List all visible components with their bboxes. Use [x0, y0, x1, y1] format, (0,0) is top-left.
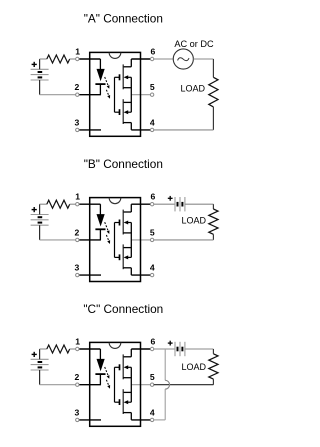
svg-text:AC or DC: AC or DC [174, 39, 214, 49]
svg-text:LOAD: LOAD [182, 216, 207, 226]
svg-text:"B" Connection: "B" Connection [84, 157, 163, 171]
svg-text:LOAD: LOAD [182, 362, 207, 372]
svg-text:"C" Connection: "C" Connection [83, 302, 163, 316]
svg-text:"A" Connection: "A" Connection [84, 12, 163, 26]
svg-text:LOAD: LOAD [181, 84, 206, 94]
